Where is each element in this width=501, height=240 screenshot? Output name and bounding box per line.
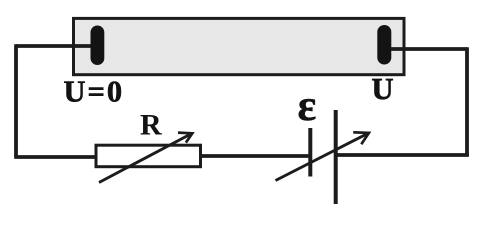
battery variable arrowhead — [353, 132, 369, 144]
wire (right vertical rail) — [465, 47, 469, 155]
svg-text:R: R — [140, 109, 162, 142]
svg-text:ε: ε — [298, 81, 317, 130]
svg-text:U=0: U=0 — [64, 75, 125, 109]
wire (resistor to battery) — [200, 154, 310, 158]
svg-text:U: U — [372, 72, 394, 106]
discharge tube body — [74, 18, 405, 74]
battery short plate — [308, 128, 312, 177]
electrode right (U plate) — [377, 25, 391, 65]
resistor R body — [96, 145, 201, 167]
wire (bottom right: battery to right rail) — [335, 153, 469, 157]
electrode left (U=0 plate) — [91, 26, 105, 66]
wire (top left: electrode to left rail) — [16, 44, 92, 48]
battery long plate — [334, 110, 338, 204]
battery variable arrow shaft — [276, 133, 369, 180]
resistor R variable arrow shaft — [99, 134, 192, 183]
resistor R variable arrowhead — [178, 133, 192, 143]
wire (bottom left: rail to resistor) — [14, 155, 96, 159]
wire (left vertical rail) — [14, 44, 18, 157]
wire (top right: electrode to right rail) — [391, 47, 467, 51]
